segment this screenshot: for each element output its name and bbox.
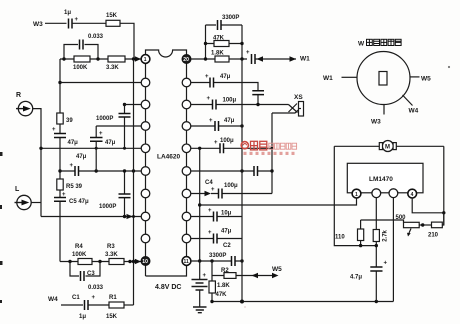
svg-text:+: +: [62, 192, 66, 198]
svg-text:3.3K: 3.3K: [105, 252, 118, 258]
svg-text:R: R: [16, 92, 21, 99]
svg-text:+: +: [211, 187, 215, 193]
svg-text:4: 4: [411, 192, 414, 198]
svg-text:R1: R1: [109, 295, 117, 301]
svg-text:100μ: 100μ: [224, 183, 238, 189]
svg-text:210: 210: [428, 233, 439, 239]
svg-text:W1: W1: [300, 56, 310, 63]
svg-text:3300P: 3300P: [209, 253, 226, 259]
svg-text:0.033: 0.033: [88, 285, 104, 291]
svg-text:+: +: [99, 131, 103, 137]
svg-text:47K: 47K: [216, 292, 228, 298]
svg-text:+: +: [246, 50, 250, 56]
svg-text:10: 10: [142, 259, 148, 265]
svg-text:+: +: [92, 295, 96, 301]
svg-text:1.8K: 1.8K: [211, 51, 224, 57]
svg-text:+: +: [75, 17, 79, 23]
svg-text:1: 1: [144, 57, 147, 63]
svg-text:+: +: [52, 127, 56, 133]
svg-text:110: 110: [335, 235, 345, 241]
svg-text:R2: R2: [221, 268, 229, 274]
svg-text:1.8K: 1.8K: [217, 283, 230, 289]
svg-text:C2: C2: [223, 243, 231, 249]
svg-text:100μ: 100μ: [223, 98, 237, 104]
svg-text:47μ: 47μ: [220, 74, 231, 80]
svg-text:47μ: 47μ: [224, 118, 235, 124]
svg-text:1000P: 1000P: [99, 204, 116, 210]
svg-text:2.7k: 2.7k: [383, 229, 389, 241]
svg-text:C3: C3: [87, 271, 95, 277]
svg-text:+: +: [208, 230, 212, 236]
svg-text:47μ: 47μ: [221, 229, 232, 235]
svg-text:W5: W5: [421, 76, 431, 83]
svg-text:1μ: 1μ: [64, 10, 71, 16]
svg-text:4.7μ: 4.7μ: [350, 275, 362, 281]
svg-text:11: 11: [184, 259, 190, 265]
svg-text:M: M: [385, 145, 390, 151]
svg-text:+: +: [203, 273, 207, 279]
svg-text:LM1470: LM1470: [369, 176, 393, 183]
svg-text:R4: R4: [75, 244, 83, 250]
svg-text:100K: 100K: [73, 65, 88, 71]
svg-text:47μ: 47μ: [68, 140, 79, 146]
svg-text:C5 47μ: C5 47μ: [69, 199, 89, 205]
svg-text:W5: W5: [272, 266, 282, 273]
svg-text:W1: W1: [323, 75, 333, 82]
svg-text:15K: 15K: [106, 314, 118, 320]
svg-text:3.3K: 3.3K: [106, 65, 119, 71]
svg-text:+: +: [384, 261, 388, 267]
svg-text:+: +: [209, 118, 213, 124]
svg-text:0.033: 0.033: [88, 34, 104, 40]
svg-text:W4: W4: [409, 108, 419, 115]
svg-text:4.8V DC: 4.8V DC: [155, 284, 181, 291]
svg-text:+: +: [214, 140, 218, 146]
svg-text:W3: W3: [371, 119, 381, 126]
svg-text:1μ: 1μ: [79, 314, 86, 320]
svg-text:100μ: 100μ: [220, 138, 234, 144]
svg-text:W3: W3: [33, 21, 43, 28]
svg-text:47μ: 47μ: [105, 140, 116, 146]
svg-text:W4: W4: [48, 296, 58, 303]
svg-text:10μ: 10μ: [221, 211, 232, 217]
svg-text:15K: 15K: [106, 13, 118, 19]
svg-text:+: +: [205, 74, 209, 80]
svg-text:39: 39: [66, 118, 73, 124]
svg-text:+: +: [70, 163, 74, 169]
svg-text:XS: XS: [294, 94, 303, 101]
svg-text:1: 1: [355, 192, 358, 198]
svg-text:1000P: 1000P: [96, 116, 113, 122]
svg-text:LA4620: LA4620: [157, 154, 181, 161]
svg-text:R5 39: R5 39: [66, 184, 83, 190]
svg-text:C4: C4: [205, 180, 213, 186]
svg-text:20: 20: [183, 57, 189, 63]
svg-text:+: +: [207, 96, 211, 102]
svg-text:100K: 100K: [72, 252, 87, 258]
svg-text:W: W: [358, 41, 365, 48]
svg-text:R3: R3: [107, 244, 115, 250]
svg-text:L: L: [15, 186, 20, 193]
svg-text:3300P: 3300P: [222, 15, 239, 21]
svg-text:C1: C1: [72, 295, 80, 301]
svg-text:47μ: 47μ: [76, 154, 87, 160]
svg-text:500: 500: [396, 215, 407, 221]
svg-text:47K: 47K: [213, 36, 225, 42]
svg-text:+: +: [208, 208, 212, 214]
